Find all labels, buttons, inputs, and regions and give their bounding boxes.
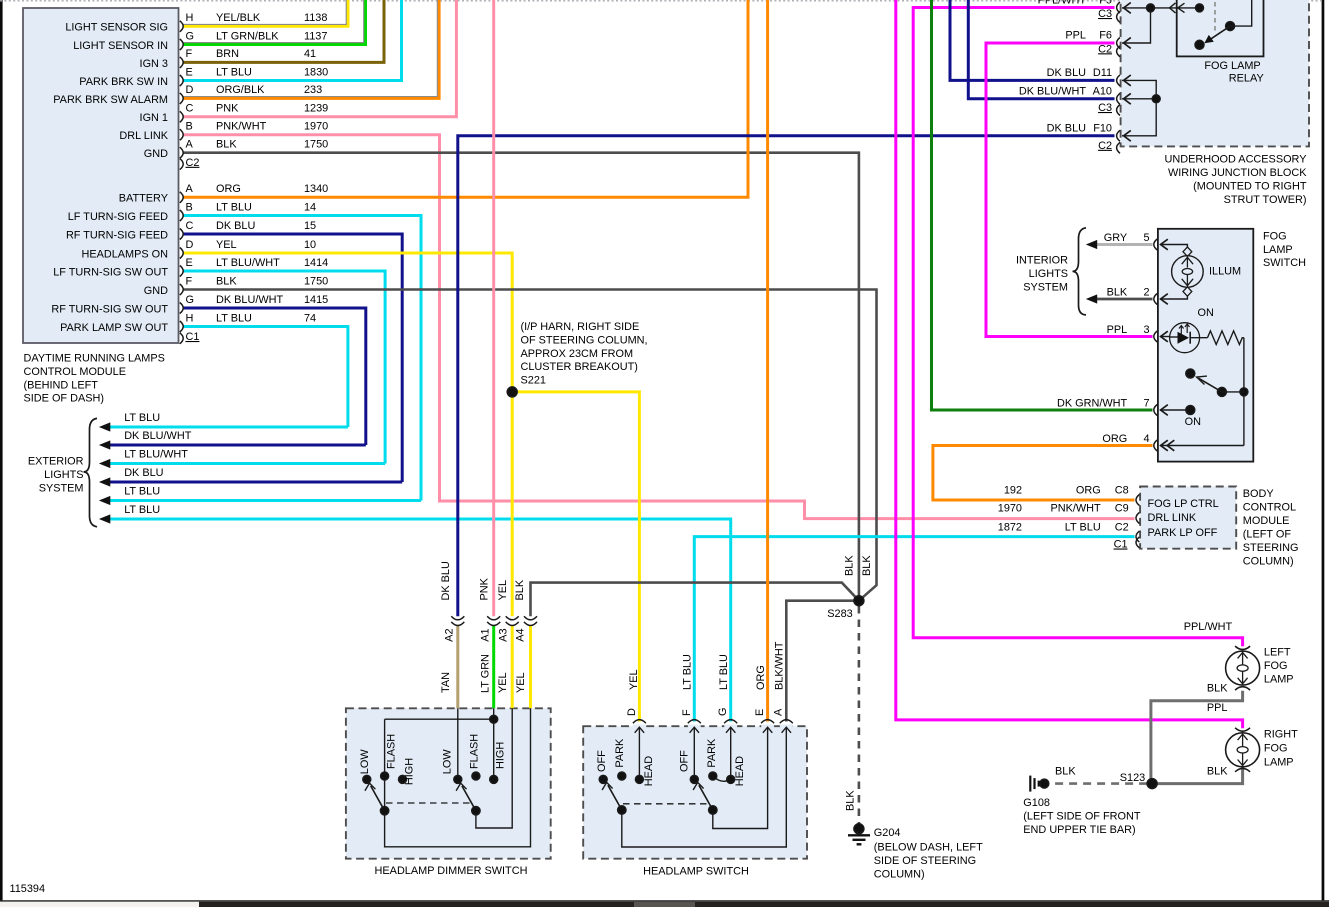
svg-text:BLK: BLK (216, 139, 237, 151)
svg-text:LEFT: LEFT (1264, 647, 1291, 659)
svg-text:CLUSTER BREAKOUT): CLUSTER BREAKOUT) (521, 361, 638, 373)
svg-text:LT BLU: LT BLU (216, 312, 252, 324)
svg-text:PARK: PARK (614, 738, 626, 768)
svg-text:PNK: PNK (216, 103, 239, 115)
svg-text:S221: S221 (521, 375, 546, 387)
svg-text:C1: C1 (1114, 539, 1128, 551)
svg-text:LIGHTS: LIGHTS (44, 469, 83, 481)
svg-text:LIGHTS: LIGHTS (1029, 268, 1068, 280)
svg-text:PNK: PNK (478, 577, 490, 600)
svg-text:DK BLU/WHT: DK BLU/WHT (1019, 86, 1087, 98)
svg-text:LT BLU/WHT: LT BLU/WHT (124, 449, 188, 461)
svg-text:G108: G108 (1023, 797, 1050, 809)
svg-text:DK BLU: DK BLU (216, 220, 255, 232)
svg-text:DK BLU/WHT: DK BLU/WHT (216, 294, 284, 306)
svg-text:DRL LINK: DRL LINK (119, 130, 168, 142)
svg-text:A: A (186, 139, 194, 151)
svg-text:BLK: BLK (1207, 683, 1228, 695)
svg-text:F: F (186, 48, 193, 60)
svg-text:PPL/WHT: PPL/WHT (1184, 621, 1233, 633)
svg-text:RF TURN-SIG SW OUT: RF TURN-SIG SW OUT (51, 303, 168, 315)
svg-text:FOG LAMP: FOG LAMP (1204, 60, 1260, 72)
svg-text:PARK LP OFF: PARK LP OFF (1148, 527, 1218, 539)
svg-text:1830: 1830 (304, 66, 328, 78)
svg-text:LT BLU/WHT: LT BLU/WHT (216, 257, 280, 269)
svg-text:DRL LINK: DRL LINK (1148, 512, 1197, 524)
svg-text:COLUMN): COLUMN) (1243, 556, 1294, 568)
svg-text:COLUMN): COLUMN) (874, 868, 925, 880)
svg-text:IGN 1: IGN 1 (140, 112, 168, 124)
svg-text:HIGH: HIGH (404, 758, 416, 785)
svg-text:PARK BRK SW IN: PARK BRK SW IN (79, 76, 168, 88)
svg-text:15: 15 (304, 220, 316, 232)
svg-text:1415: 1415 (304, 294, 328, 306)
svg-text:F: F (186, 275, 193, 287)
svg-text:DK BLU: DK BLU (124, 467, 163, 479)
svg-text:C: C (186, 220, 194, 232)
svg-text:FOG: FOG (1264, 660, 1288, 672)
svg-text:LT BLU: LT BLU (216, 201, 252, 213)
svg-text:GND: GND (144, 148, 168, 160)
svg-text:PARK: PARK (706, 738, 718, 768)
svg-text:SYSTEM: SYSTEM (39, 482, 84, 494)
svg-text:74: 74 (304, 312, 316, 324)
svg-text:(LEFT SIDE OF FRONT: (LEFT SIDE OF FRONT (1023, 810, 1141, 822)
svg-text:G: G (186, 30, 194, 42)
svg-text:HEADLAMPS ON: HEADLAMPS ON (81, 248, 168, 260)
svg-text:RELAY: RELAY (1229, 73, 1265, 85)
svg-text:F5: F5 (1099, 0, 1112, 7)
svg-text:C1: C1 (186, 331, 200, 343)
svg-text:YEL/BLK: YEL/BLK (216, 12, 261, 24)
svg-text:FOG LP CTRL: FOG LP CTRL (1148, 498, 1219, 510)
svg-text:BLK: BLK (861, 555, 873, 576)
svg-text:C2: C2 (1098, 43, 1112, 55)
svg-text:G: G (717, 708, 729, 716)
svg-text:10: 10 (304, 239, 316, 251)
svg-text:E: E (754, 709, 766, 716)
svg-text:B: B (186, 121, 193, 133)
svg-text:HEADLAMP SWITCH: HEADLAMP SWITCH (643, 865, 749, 877)
svg-text:EXTERIOR: EXTERIOR (28, 456, 84, 468)
svg-text:5: 5 (1143, 232, 1149, 244)
svg-text:1340: 1340 (304, 183, 328, 195)
svg-text:115394: 115394 (10, 883, 46, 895)
svg-text:INTERIOR: INTERIOR (1016, 255, 1068, 267)
svg-text:BLK: BLK (216, 275, 237, 287)
svg-text:RIGHT: RIGHT (1264, 729, 1298, 741)
svg-text:BLK: BLK (1107, 287, 1128, 299)
svg-text:BLK/WHT: BLK/WHT (774, 641, 786, 690)
svg-text:HEADLAMP DIMMER SWITCH: HEADLAMP DIMMER SWITCH (375, 865, 528, 877)
svg-text:BLK: BLK (1055, 766, 1076, 778)
svg-text:LF TURN-SIG FEED: LF TURN-SIG FEED (68, 211, 168, 223)
svg-text:PPL: PPL (1065, 30, 1086, 42)
svg-text:HIGH: HIGH (494, 742, 506, 769)
svg-text:DK BLU: DK BLU (440, 561, 452, 600)
svg-text:1750: 1750 (304, 139, 328, 151)
svg-text:A3: A3 (498, 628, 510, 641)
svg-text:(BELOW DASH, LEFT: (BELOW DASH, LEFT (874, 842, 983, 854)
svg-text:BLK: BLK (844, 790, 856, 811)
svg-text:2: 2 (1143, 287, 1149, 299)
svg-text:BATTERY: BATTERY (119, 193, 169, 205)
svg-text:LIGHT SENSOR SIG: LIGHT SENSOR SIG (65, 22, 168, 34)
svg-text:C: C (186, 103, 194, 115)
svg-text:A: A (186, 183, 194, 195)
svg-text:PPL/WHT: PPL/WHT (1038, 0, 1087, 7)
svg-text:14: 14 (304, 201, 316, 213)
svg-text:WIRING JUNCTION BLOCK: WIRING JUNCTION BLOCK (1168, 167, 1307, 179)
svg-text:DK GRN/WHT: DK GRN/WHT (1057, 398, 1128, 410)
svg-text:OFF: OFF (596, 750, 608, 772)
svg-text:BLK: BLK (843, 555, 855, 576)
svg-text:ILLUM: ILLUM (1209, 266, 1241, 278)
svg-text:BLK: BLK (1207, 766, 1228, 778)
svg-text:DK BLU: DK BLU (1047, 67, 1086, 79)
svg-text:D: D (186, 239, 194, 251)
svg-text:1970: 1970 (998, 503, 1022, 515)
svg-text:G204: G204 (874, 827, 901, 839)
svg-text:LAMP: LAMP (1264, 756, 1294, 768)
svg-text:UNDERHOOD ACCESSORY: UNDERHOOD ACCESSORY (1164, 154, 1307, 166)
svg-text:4: 4 (1143, 433, 1149, 445)
svg-text:7: 7 (1143, 398, 1149, 410)
svg-text:1239: 1239 (304, 103, 328, 115)
svg-text:H: H (186, 12, 194, 24)
svg-text:CONTROL: CONTROL (1243, 502, 1296, 514)
svg-text:G: G (186, 294, 194, 306)
svg-text:F: F (681, 709, 693, 716)
svg-text:YEL: YEL (628, 669, 640, 690)
svg-text:DK BLU: DK BLU (1047, 123, 1086, 135)
svg-text:BLK: BLK (514, 579, 526, 600)
svg-text:D: D (186, 84, 194, 96)
svg-text:C2: C2 (1115, 522, 1129, 534)
svg-text:ORG: ORG (216, 183, 241, 195)
svg-text:PPL: PPL (1207, 702, 1228, 714)
svg-text:1137: 1137 (304, 30, 327, 42)
svg-text:C3: C3 (1098, 8, 1112, 20)
svg-text:E: E (186, 257, 193, 269)
svg-text:1970: 1970 (304, 121, 328, 133)
svg-text:ORG: ORG (1102, 433, 1127, 445)
svg-text:PARK LAMP SW OUT: PARK LAMP SW OUT (60, 322, 168, 334)
svg-text:LT GRN/BLK: LT GRN/BLK (216, 30, 279, 42)
svg-text:PNK/WHT: PNK/WHT (216, 121, 267, 133)
svg-text:ON: ON (1198, 307, 1214, 319)
svg-text:FOG: FOG (1264, 742, 1288, 754)
svg-text:F10: F10 (1093, 123, 1112, 135)
svg-text:(LEFT OF: (LEFT OF (1243, 529, 1292, 541)
svg-text:FLASH: FLASH (469, 734, 481, 769)
svg-text:C3: C3 (1098, 102, 1112, 114)
svg-text:ON: ON (1185, 416, 1201, 428)
svg-text:IGN 3: IGN 3 (140, 58, 168, 70)
svg-text:LAMP: LAMP (1264, 674, 1294, 686)
svg-text:1872: 1872 (998, 522, 1022, 534)
svg-text:YEL: YEL (497, 580, 509, 601)
svg-text:SIDE OF DASH): SIDE OF DASH) (24, 393, 104, 405)
svg-text:BRN: BRN (216, 48, 239, 60)
svg-text:MODULE: MODULE (1243, 515, 1290, 527)
svg-text:(BEHIND LEFT: (BEHIND LEFT (24, 379, 99, 391)
svg-text:C2: C2 (186, 157, 200, 169)
svg-text:(MOUNTED TO RIGHT: (MOUNTED TO RIGHT (1193, 181, 1307, 193)
svg-text:PPL: PPL (1107, 324, 1128, 336)
svg-text:LOW: LOW (359, 749, 371, 775)
svg-text:B: B (186, 201, 193, 213)
svg-text:ORG: ORG (755, 665, 767, 690)
svg-text:SYSTEM: SYSTEM (1023, 281, 1068, 293)
svg-text:A4: A4 (515, 628, 527, 641)
svg-text:OFF: OFF (678, 750, 690, 772)
svg-text:ORG/BLK: ORG/BLK (216, 84, 265, 96)
svg-text:H: H (186, 312, 194, 324)
svg-text:A1: A1 (479, 628, 491, 641)
svg-text:END UPPER TIE BAR): END UPPER TIE BAR) (1023, 824, 1135, 836)
svg-text:SIDE OF STEERING: SIDE OF STEERING (874, 855, 976, 867)
svg-text:ORG: ORG (1076, 485, 1101, 497)
svg-text:APPROX 23CM FROM: APPROX 23CM FROM (521, 348, 634, 360)
svg-text:YEL: YEL (497, 672, 509, 693)
svg-text:LT BLU: LT BLU (1065, 522, 1101, 534)
svg-text:LF TURN-SIG SW OUT: LF TURN-SIG SW OUT (53, 266, 168, 278)
svg-text:LT BLU: LT BLU (124, 486, 160, 498)
svg-text:STRUT TOWER): STRUT TOWER) (1224, 194, 1307, 206)
svg-text:LT GRN: LT GRN (479, 654, 491, 693)
svg-text:LT BLU: LT BLU (682, 654, 694, 690)
svg-text:BODY: BODY (1243, 488, 1275, 500)
svg-text:233: 233 (304, 84, 322, 96)
svg-text:LT BLU: LT BLU (124, 504, 160, 516)
svg-text:HEAD: HEAD (734, 756, 746, 786)
svg-text:DAYTIME RUNNING LAMPS: DAYTIME RUNNING LAMPS (24, 353, 165, 365)
svg-text:FLASH: FLASH (385, 734, 397, 769)
svg-text:FOG: FOG (1263, 230, 1287, 242)
svg-text:C8: C8 (1115, 485, 1129, 497)
svg-text:1750: 1750 (304, 275, 328, 287)
svg-text:E: E (186, 66, 193, 78)
svg-text:LT BLU: LT BLU (124, 412, 160, 424)
svg-text:SWITCH: SWITCH (1263, 257, 1306, 269)
svg-text:LT BLU: LT BLU (216, 66, 252, 78)
svg-text:HEAD: HEAD (643, 756, 655, 786)
svg-text:192: 192 (1004, 485, 1022, 497)
svg-text:D11: D11 (1093, 67, 1112, 79)
svg-text:D: D (626, 708, 638, 716)
svg-text:DK BLU/WHT: DK BLU/WHT (124, 430, 192, 442)
svg-text:C2: C2 (1098, 140, 1112, 152)
svg-text:PNK/WHT: PNK/WHT (1050, 503, 1101, 515)
svg-text:41: 41 (304, 48, 316, 60)
svg-text:LAMP: LAMP (1263, 244, 1293, 256)
svg-text:1414: 1414 (304, 257, 328, 269)
svg-text:S283: S283 (827, 608, 852, 620)
svg-text:LT BLU: LT BLU (718, 654, 730, 690)
svg-text:GRY: GRY (1104, 232, 1128, 244)
svg-text:STEERING: STEERING (1243, 542, 1299, 554)
svg-text:A2: A2 (444, 628, 456, 641)
svg-text:OF STEERING COLUMN,: OF STEERING COLUMN, (521, 334, 648, 346)
svg-text:GND: GND (144, 285, 168, 297)
svg-text:3: 3 (1143, 324, 1149, 336)
svg-text:(I/P HARN, RIGHT SIDE: (I/P HARN, RIGHT SIDE (521, 321, 640, 333)
svg-text:1138: 1138 (304, 12, 327, 24)
svg-text:C9: C9 (1115, 503, 1129, 515)
svg-text:TAN: TAN (440, 672, 452, 693)
svg-text:CONTROL MODULE: CONTROL MODULE (24, 366, 126, 378)
svg-text:LOW: LOW (442, 749, 454, 775)
svg-text:RF TURN-SIG FEED: RF TURN-SIG FEED (66, 229, 168, 241)
svg-text:PARK BRK SW ALARM: PARK BRK SW ALARM (53, 94, 168, 106)
svg-text:S123: S123 (1120, 772, 1145, 784)
svg-text:LIGHT SENSOR IN: LIGHT SENSOR IN (73, 40, 168, 52)
svg-text:A: A (773, 708, 785, 716)
svg-text:F6: F6 (1099, 30, 1112, 42)
svg-text:A10: A10 (1093, 86, 1112, 98)
svg-text:YEL: YEL (515, 672, 527, 693)
svg-text:YEL: YEL (216, 239, 237, 251)
